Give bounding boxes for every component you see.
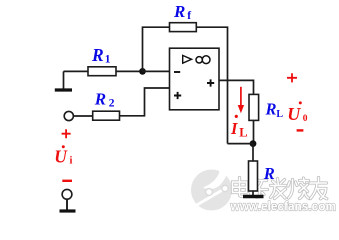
svg-text:1: 1	[105, 54, 111, 66]
current arrow IL	[240, 87, 242, 108]
svg-text:R: R	[263, 164, 275, 183]
ground (left, at R1)	[55, 88, 72, 91]
char shao	[288, 178, 309, 199]
wire: feedback bottom run to node B	[228, 143, 254, 145]
svg-text:U: U	[287, 104, 301, 124]
wire: R bottom to ground	[252, 191, 254, 195]
resistor RL	[249, 94, 259, 120]
svg-text:R: R	[265, 100, 277, 119]
label Ui (input voltage)	[54, 145, 72, 166]
label Uo (output voltage)	[287, 101, 308, 124]
minus sign of Ui	[62, 180, 72, 182]
svg-text:i: i	[70, 155, 73, 166]
svg-text:0: 0	[303, 114, 308, 124]
svg-text:I: I	[230, 119, 238, 138]
svg-text:R: R	[173, 2, 185, 21]
svg-text:U: U	[54, 147, 68, 167]
char fa	[271, 179, 287, 199]
wire: node A up to Rf	[143, 27, 170, 71]
char dian	[233, 178, 249, 197]
svg-text:L: L	[276, 109, 283, 120]
wire: ground to R1 left	[64, 71, 89, 88]
watermark logo (elecfans)	[191, 167, 232, 211]
wire: RL bottom to node B	[253, 120, 255, 143]
svg-text:R: R	[91, 45, 104, 65]
svg-text:R: R	[94, 89, 106, 108]
op-amp minus (inverting) mark	[174, 71, 180, 73]
wire: op-amp output to RL top	[219, 80, 254, 94]
wire: R2 right to op-amp non-inverting input	[120, 88, 170, 116]
svg-text:2: 2	[109, 97, 115, 109]
minus sign of Uo	[297, 129, 304, 131]
op-amp infinity symbol	[196, 57, 202, 63]
char zi	[252, 181, 268, 198]
wire: terminal stem	[66, 199, 68, 209]
wire: node B down to R	[252, 144, 254, 161]
op-amp U1 (rectangle symbol)	[170, 48, 220, 110]
node B (junction dot RL/R)	[250, 140, 257, 147]
plus sign of Ui	[62, 129, 71, 138]
svg-text:f: f	[187, 10, 191, 22]
op-amp plus (non-inverting) mark	[174, 92, 181, 99]
resistor R2	[93, 111, 120, 120]
ground (below R)	[243, 195, 264, 198]
wire: terminal to R2	[74, 115, 93, 117]
resistor R1	[88, 67, 116, 76]
terminal: input + (open circle)	[64, 111, 73, 120]
op-amp output plus mark	[207, 79, 214, 86]
node A (junction dot, inverting input node)	[139, 68, 146, 75]
svg-text:L: L	[239, 126, 247, 140]
svg-text:www.elecfans.com: www.elecfans.com	[230, 198, 336, 213]
terminal: input - (open circle)	[62, 189, 72, 199]
wire: Rf right, down to bottom node	[196, 27, 227, 143]
wire: R1 right to node A	[116, 70, 143, 72]
resistor Rf	[170, 23, 197, 32]
wire: node A to op-amp inverting input	[143, 70, 170, 72]
plus sign of Uo	[287, 73, 297, 82]
resistor R	[249, 161, 258, 191]
char you	[310, 178, 327, 199]
watermark text: 电子发烧友 (drawn strokes, embossed gray)	[233, 178, 327, 199]
op-amp gain triangle	[183, 55, 192, 63]
label IL	[230, 115, 248, 140]
ground (below input)	[60, 209, 76, 212]
